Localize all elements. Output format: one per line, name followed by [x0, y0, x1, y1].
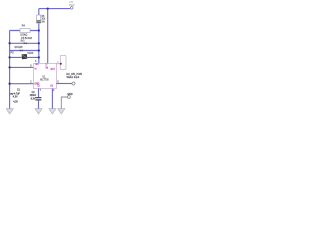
svg-text:SC0S: SC0S — [27, 52, 33, 55]
wire IC right pin y=83.4 to port — [56, 83, 72, 85]
wire IC right pin stubs — [56, 63, 60, 65]
diode D3 dark package — [22, 52, 34, 59]
svg-text:4.3V: 4.3V — [13, 95, 18, 98]
ground arrow center-left — [35, 109, 42, 115]
svg-text:4.2V: 4.2V — [13, 100, 18, 103]
port circle — [72, 82, 75, 85]
node pin dot — [60, 63, 62, 65]
capacitor C2 — [30, 91, 42, 101]
label DC_WD_PWR — [66, 72, 82, 79]
node junction at (38.5,57.3) — [38, 56, 40, 58]
resistor R4 horizontal — [20, 23, 30, 36]
svg-text:1N4148: 1N4148 — [14, 46, 23, 49]
wire vertical branch x=38.5 — [38, 9, 40, 64]
node junction at (38.5,30.5) — [38, 29, 40, 31]
svg-text:PS: PS — [11, 51, 14, 54]
ground arrow left — [6, 109, 13, 115]
node junction at (9.5,57.3) — [8, 56, 10, 58]
svg-text:MC7705: MC7705 — [40, 80, 49, 82]
IC U1 — [30, 60, 59, 93]
pin numbers — [30, 60, 59, 93]
svg-text:6.3V: 6.3V — [31, 97, 36, 100]
svg-text:100nF: 100nF — [30, 94, 37, 97]
node junction at (9.5,43.1) — [8, 42, 10, 44]
svg-text:1*: 1* — [45, 65, 47, 67]
wire IC left pin y=67.4 — [10, 66, 34, 68]
capacitor C1 label — [10, 88, 21, 103]
wire branch y=57.3 — [10, 56, 39, 58]
wire resistor row y=30.5 — [10, 30, 39, 32]
wire branch y=50.5 — [10, 50, 39, 52]
wire IC bottom pin x=52.3 — [51, 89, 53, 109]
node junction at (9.5,67.4) — [8, 66, 10, 68]
wire IC left pin y=83.7 — [10, 83, 34, 85]
svg-text:2kΩ: 2kΩ — [20, 40, 24, 42]
node junction at (47.5,8.5) — [47, 7, 49, 9]
diode D5 — [20, 37, 32, 44]
ground arrow right — [58, 109, 65, 115]
node junction at (9.5,83.7) — [8, 83, 10, 85]
wire branch y=43.1 — [10, 42, 39, 44]
power symbol GND — [67, 93, 72, 99]
power symbol +5V — [69, 1, 75, 9]
diode D4 — [11, 46, 23, 55]
node junction at (38.5,50.5) — [38, 49, 40, 51]
ground arrow center-right — [49, 109, 56, 115]
svg-text:PWR: PWR — [69, 4, 75, 7]
wire vertical branch x=47.5 — [47, 9, 49, 64]
wire IC bottom pin x=38.5 — [38, 89, 40, 109]
wire left vertical x=9.5 — [9, 31, 11, 109]
connector J1 — [60, 55, 66, 69]
wire top +5V rail — [39, 8, 70, 10]
node junction at (38.5,43.1) — [38, 42, 40, 44]
wire GND elbow — [61, 97, 67, 109]
resistor R5 vertical — [36, 15, 45, 24]
svg-text:D5 BAS16: D5 BAS16 — [21, 37, 32, 40]
svg-text:RST: RST — [51, 69, 56, 71]
pin name labels — [34, 64, 55, 87]
